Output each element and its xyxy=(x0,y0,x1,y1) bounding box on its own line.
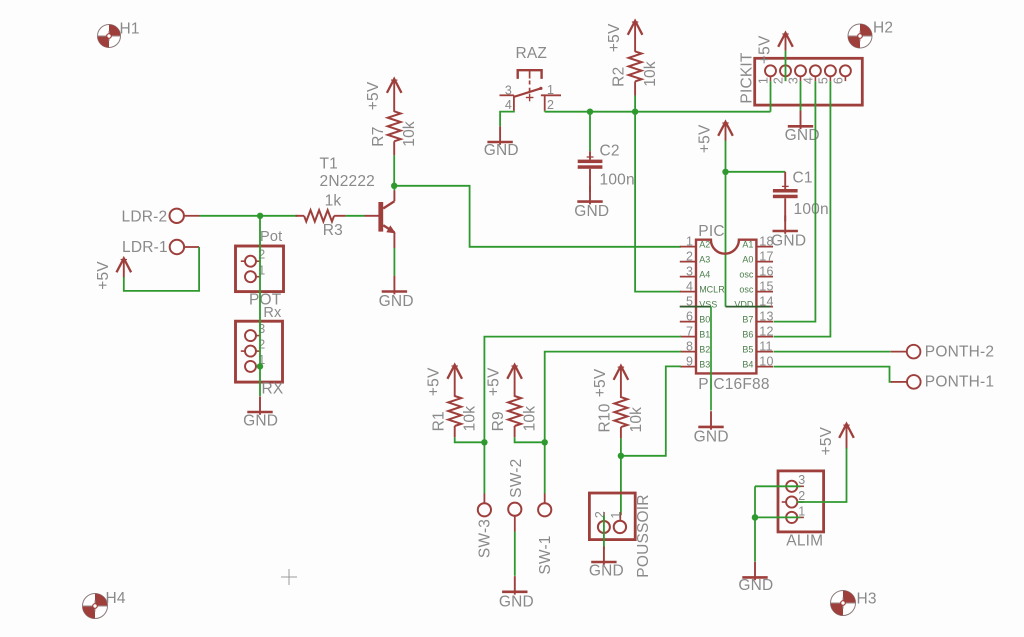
svg-text:1k: 1k xyxy=(325,192,342,209)
svg-text:GND: GND xyxy=(589,563,624,580)
wire R2 to MCLR net xyxy=(634,96,636,112)
pin number 17 xyxy=(759,249,773,263)
label +5V (R2) xyxy=(606,23,623,52)
pin number 18 xyxy=(759,234,773,248)
svg-text:10k: 10k xyxy=(628,407,645,433)
svg-text:R2: R2 xyxy=(611,67,628,87)
wire PIC B4 to PONTH-1 xyxy=(774,367,893,382)
resistor R10 xyxy=(614,397,627,438)
svg-text:PIC16F88: PIC16F88 xyxy=(698,376,769,393)
label POUSSOIR pin 2 xyxy=(593,511,607,518)
svg-text:2: 2 xyxy=(772,77,786,84)
node junction SW-3 xyxy=(481,439,487,445)
svg-text:R9: R9 xyxy=(490,411,507,431)
PIC pin 1 stub xyxy=(680,246,696,248)
wire R9 to SW-1 node xyxy=(515,437,545,442)
svg-text:GND: GND xyxy=(499,594,534,611)
svg-text:A4: A4 xyxy=(699,270,710,280)
PIC pin 17 stub xyxy=(756,261,773,263)
label POT pin 1 xyxy=(258,263,265,277)
svg-text:B7: B7 xyxy=(742,315,753,325)
svg-text:A0: A0 xyxy=(742,255,753,265)
PIC pin 13 stub xyxy=(756,321,773,323)
ground GND (PICKIT) xyxy=(788,81,813,129)
label R7 value 10k xyxy=(401,121,418,147)
pin name B5 xyxy=(742,345,753,355)
svg-text:R1: R1 xyxy=(430,411,447,431)
svg-text:B0: B0 xyxy=(699,315,710,325)
wire LDR-2 node to RX xyxy=(259,216,261,396)
label PICKIT xyxy=(738,52,755,103)
pin number 6 xyxy=(686,309,693,323)
wire PICKIT pin4 to PIC B7 xyxy=(774,81,816,322)
pad SW-3 xyxy=(478,494,491,517)
mounting hole H2 xyxy=(848,24,872,48)
label GND (C2) xyxy=(574,203,609,220)
svg-text:3: 3 xyxy=(787,77,801,84)
pad PONTH-2 xyxy=(891,345,921,359)
svg-text:6: 6 xyxy=(831,77,845,84)
svg-text:5: 5 xyxy=(816,77,830,84)
svg-text:R7: R7 xyxy=(370,126,387,146)
svg-text:PICKIT: PICKIT xyxy=(738,52,755,103)
label +5V (VDD) xyxy=(697,124,714,153)
svg-text:1: 1 xyxy=(686,234,693,248)
ground GND (C1) xyxy=(773,215,798,234)
resistor R1 xyxy=(448,396,461,437)
svg-text:H3: H3 xyxy=(857,591,877,608)
svg-text:LDR-2: LDR-2 xyxy=(122,209,168,226)
label H4 xyxy=(106,590,126,607)
label RAZ pin 3 xyxy=(505,84,512,98)
wire C2 top xyxy=(589,112,591,152)
svg-text:R3: R3 xyxy=(323,222,343,239)
pin name B6 xyxy=(742,330,753,340)
pin name A4 xyxy=(699,270,710,280)
pin number 2 xyxy=(686,249,693,263)
label ALIM xyxy=(786,532,823,549)
node junction C1 xyxy=(722,169,728,175)
svg-text:+5V: +5V xyxy=(818,426,835,455)
pin name A2 xyxy=(699,240,710,250)
label T1 value 2N2222 xyxy=(320,173,376,190)
svg-text:B4: B4 xyxy=(742,360,753,370)
label +5V (ALIM) xyxy=(818,426,835,455)
pin name B1 xyxy=(699,330,710,340)
svg-text:GND: GND xyxy=(785,127,820,144)
svg-text:PIC: PIC xyxy=(698,223,724,240)
PIC pin 18 stub xyxy=(756,246,773,248)
pin name B4 xyxy=(742,360,753,370)
label GND (C1) xyxy=(771,233,806,250)
label R10 xyxy=(597,403,614,432)
pin number 3 xyxy=(686,264,693,278)
svg-text:Rx: Rx xyxy=(263,305,282,321)
label +5V (R7) xyxy=(365,81,382,110)
label GND (PIC) xyxy=(694,428,729,445)
pad SW-2 xyxy=(508,503,521,532)
svg-text:C2: C2 xyxy=(600,142,620,159)
wire LDR-2 to R3 xyxy=(200,215,298,217)
svg-text:A3: A3 xyxy=(699,255,710,265)
label H3 xyxy=(857,591,877,608)
mounting hole H1 xyxy=(98,25,121,48)
label R3 xyxy=(323,222,343,239)
label R2 value 10k xyxy=(642,61,659,87)
PIC pin 15 stub xyxy=(756,291,773,293)
mounting hole H4 xyxy=(83,594,108,619)
pad SW-1 xyxy=(538,494,551,517)
wire T1 emitter to GND xyxy=(393,248,395,276)
label R9 value 10k xyxy=(522,406,539,432)
connector PICKIT xyxy=(755,58,863,105)
PIC pin 6 stub xyxy=(680,321,696,323)
node junction RX pin1 xyxy=(257,363,263,369)
svg-text:3: 3 xyxy=(505,84,512,98)
pin name VDD xyxy=(734,300,754,310)
svg-text:MCLR: MCLR xyxy=(699,285,725,295)
PIC pin 8 stub xyxy=(680,351,696,353)
svg-text:11: 11 xyxy=(759,339,772,353)
label Pot xyxy=(260,229,282,245)
pin name osc xyxy=(739,270,754,280)
capacitor C2 xyxy=(578,151,603,192)
svg-text:17: 17 xyxy=(759,249,773,263)
PICKIT pad 1 xyxy=(765,65,776,81)
node junction R10 xyxy=(618,453,624,459)
label GND (ALIM) xyxy=(738,577,773,594)
node junction C2 xyxy=(587,109,593,115)
power +5V (R1) xyxy=(447,365,462,397)
wire PICKIT pin1 down xyxy=(770,81,772,112)
pad PONTH-1 xyxy=(891,375,921,389)
transistor T1 xyxy=(365,191,396,249)
label RX pin 2 xyxy=(258,338,265,352)
svg-text:Pot: Pot xyxy=(260,229,282,245)
ground GND (RX) xyxy=(247,396,272,415)
label PICKIT pin 1 xyxy=(757,77,771,84)
ground GND (C2) xyxy=(577,186,602,205)
wire VSS to GND xyxy=(680,307,711,411)
PIC pin 7 stub xyxy=(680,336,696,338)
svg-text:+5V: +5V xyxy=(426,367,443,396)
wire PICKIT pin5 to PIC B6 xyxy=(774,81,831,337)
label SW-3 xyxy=(477,519,494,558)
PIC pin 14 stub xyxy=(756,306,773,308)
label C2 value 100n xyxy=(600,171,635,188)
pad LDR-2 xyxy=(170,209,200,223)
power +5V (ALIM) xyxy=(839,424,854,449)
power +5V (PICKIT) xyxy=(778,33,793,51)
label R10 value 10k xyxy=(628,407,645,433)
PIC pin 10 stub xyxy=(756,366,773,368)
svg-text:B5: B5 xyxy=(742,345,753,355)
label T1 xyxy=(320,155,339,172)
svg-text:+5V: +5V xyxy=(95,261,112,290)
label GND (SW-2) xyxy=(499,594,534,611)
label +5V (PICKIT) xyxy=(757,35,774,64)
label R1 value 10k xyxy=(462,406,479,432)
label Rx xyxy=(263,305,282,321)
label PONTH-2 xyxy=(925,344,994,361)
label POT xyxy=(249,292,282,309)
svg-text:9: 9 xyxy=(686,354,693,368)
svg-text:3: 3 xyxy=(798,473,805,487)
pin name A1 xyxy=(742,240,753,250)
label ALIM pin 2 xyxy=(798,489,805,503)
resistor R3 xyxy=(296,210,346,221)
label POT pin 2 xyxy=(258,248,265,262)
PICKIT pad 2 xyxy=(780,65,791,81)
svg-text:100n: 100n xyxy=(794,201,829,218)
wire POUSSOIR pin2 to GND xyxy=(603,516,605,550)
PICKIT pad 5 xyxy=(825,65,836,81)
label C1 xyxy=(793,169,813,186)
power +5V (LDR-1) xyxy=(117,258,132,277)
ground GND (PIC) xyxy=(698,411,723,430)
pin name B3 xyxy=(699,360,710,370)
label PICKIT pin 6 xyxy=(831,77,845,84)
svg-text:+5V: +5V xyxy=(365,81,382,110)
wire ALIM pin2 to +5V xyxy=(797,448,847,502)
ground GND (T1) xyxy=(382,276,407,295)
svg-text:10k: 10k xyxy=(642,61,659,87)
svg-text:H4: H4 xyxy=(106,590,126,607)
PIC pin 5 stub xyxy=(680,306,696,308)
node junction collector xyxy=(391,183,397,189)
node junction LDR-2/POT xyxy=(257,213,263,219)
wire RAZ pin2 down xyxy=(544,110,546,113)
svg-text:T1: T1 xyxy=(320,155,339,172)
svg-text:B2: B2 xyxy=(699,345,710,355)
label PICKIT pin 3 xyxy=(787,77,801,84)
wire MCLR net xyxy=(545,111,771,113)
svg-text:12: 12 xyxy=(759,324,773,338)
svg-text:SW-1: SW-1 xyxy=(537,535,554,574)
label SW-1 xyxy=(537,535,554,574)
wire PIC B2 to SW-1 xyxy=(545,352,681,494)
pin name MCLR xyxy=(699,285,725,295)
pad LDR-1 xyxy=(170,240,199,254)
switch RAZ xyxy=(500,70,562,111)
label ALIM pin 3 xyxy=(798,473,805,487)
PIC pin 16 stub xyxy=(756,276,773,278)
svg-text:SW-3: SW-3 xyxy=(477,519,494,558)
svg-text:GND: GND xyxy=(771,233,806,250)
wire ALIM pin1 to node xyxy=(755,516,800,518)
svg-text:4: 4 xyxy=(505,98,512,112)
PICKIT pad 3 xyxy=(795,65,806,81)
svg-text:+5V: +5V xyxy=(757,35,774,64)
wire PIC B1 to SW-3 xyxy=(484,337,681,494)
wire R10 node to POUSSOIR xyxy=(620,456,622,515)
label C1 value 100n xyxy=(794,201,829,218)
wire +5V down to VDD xyxy=(725,141,727,307)
svg-text:16: 16 xyxy=(759,264,773,278)
label H2 xyxy=(873,20,893,37)
capacitor C1 xyxy=(773,172,798,222)
svg-text:+5V: +5V xyxy=(606,23,623,52)
wire SW-2 to GND xyxy=(514,532,516,576)
node junction SW-1 xyxy=(542,439,548,445)
svg-text:PONTH-2: PONTH-2 xyxy=(925,344,994,361)
power +5V (R2) xyxy=(628,21,643,52)
svg-text:H2: H2 xyxy=(873,20,893,37)
pin number 1 xyxy=(686,234,693,248)
power +5V (R9) xyxy=(507,365,522,397)
wire ALIM pin3 to node xyxy=(755,486,800,561)
svg-text:A2: A2 xyxy=(699,240,710,250)
label +5V (R9) xyxy=(486,367,503,396)
svg-text:B1: B1 xyxy=(699,330,710,340)
ground GND (SW-2) xyxy=(502,576,527,595)
label LDR-2 xyxy=(122,209,168,226)
power +5V (R7) xyxy=(387,79,402,112)
svg-text:15: 15 xyxy=(759,279,773,293)
svg-text:VSS: VSS xyxy=(699,300,717,310)
label PIC xyxy=(698,223,724,240)
label PONTH-1 xyxy=(925,374,994,391)
label PIC16F88 xyxy=(698,376,769,393)
svg-text:7: 7 xyxy=(686,324,693,338)
label GND (RAZ) xyxy=(484,142,519,159)
wire to C1 xyxy=(726,171,786,173)
svg-text:GND: GND xyxy=(484,142,519,159)
svg-text:RAZ: RAZ xyxy=(516,45,548,62)
mounting hole H3 xyxy=(831,591,856,616)
svg-text:osc: osc xyxy=(739,270,754,280)
svg-text:H1: H1 xyxy=(120,21,140,38)
wire LDR-1 to +5V xyxy=(124,247,199,291)
label +5V (R10) xyxy=(592,368,609,397)
svg-text:A1: A1 xyxy=(742,240,753,250)
label R9 xyxy=(490,411,507,431)
wire R7 to T1 collector xyxy=(393,155,395,185)
label C2 xyxy=(600,142,620,159)
svg-text:GND: GND xyxy=(379,293,414,310)
pin number 8 xyxy=(686,339,693,353)
svg-text:4: 4 xyxy=(801,77,815,84)
pin number 15 xyxy=(759,279,773,293)
label RAZ pin 2 xyxy=(547,98,554,112)
PIC pin 4 stub xyxy=(680,291,696,293)
svg-text:2: 2 xyxy=(593,511,607,518)
pin number 10 xyxy=(759,354,773,368)
pin name B0 xyxy=(699,315,710,325)
op-amp U1 PIC16F88 outline xyxy=(696,240,756,374)
svg-text:+5V: +5V xyxy=(486,367,503,396)
pin number 13 xyxy=(759,309,773,323)
label RX pin 3 xyxy=(258,322,265,336)
pin number 7 xyxy=(686,324,693,338)
svg-text:2N2222: 2N2222 xyxy=(320,173,376,190)
label +5V (LDR-1) xyxy=(95,261,112,290)
pin number 11 xyxy=(759,339,772,353)
wire R10 to node xyxy=(620,438,622,455)
connector RX xyxy=(236,321,283,382)
label LDR-1 xyxy=(122,239,168,256)
svg-text:B3: B3 xyxy=(699,360,710,370)
svg-text:100n: 100n xyxy=(600,171,635,188)
PIC pin 2 stub xyxy=(680,261,696,263)
resistor R7 xyxy=(388,111,401,155)
label RX xyxy=(262,380,284,397)
svg-text:RX: RX xyxy=(262,380,284,397)
label SW-2 xyxy=(508,459,525,498)
pin name B2 xyxy=(699,345,710,355)
pin number 4 xyxy=(686,279,693,293)
pin number 5 xyxy=(686,294,693,308)
wire RAZ pin4 to GND xyxy=(500,111,514,127)
label PICKIT pin 4 xyxy=(801,77,815,84)
svg-text:1: 1 xyxy=(547,83,554,97)
label PICKIT pin 5 xyxy=(816,77,830,84)
svg-text:3: 3 xyxy=(686,264,693,278)
pin number 9 xyxy=(686,354,693,368)
PIC pin 3 stub xyxy=(680,276,696,278)
resistor R2 xyxy=(629,51,642,95)
svg-text:1: 1 xyxy=(609,511,623,518)
svg-text:2: 2 xyxy=(547,98,554,112)
svg-text:GND: GND xyxy=(243,413,278,430)
wire R3 to T1 base xyxy=(346,215,365,217)
label R2 xyxy=(611,67,628,87)
label RAZ xyxy=(516,45,548,62)
pin number 14 xyxy=(759,294,773,308)
node junction ALIM xyxy=(752,514,759,521)
svg-text:4: 4 xyxy=(686,279,693,293)
pin name B7 xyxy=(742,315,753,325)
svg-text:8: 8 xyxy=(686,339,693,353)
svg-text:10k: 10k xyxy=(401,121,418,147)
pin number 12 xyxy=(759,324,773,338)
svg-text:13: 13 xyxy=(759,309,773,323)
label GND (PICKIT) xyxy=(785,127,820,144)
svg-text:10k: 10k xyxy=(522,406,539,432)
svg-text:POUSSOIR: POUSSOIR xyxy=(635,494,652,577)
pin number 16 xyxy=(759,264,773,278)
PICKIT pad 4 xyxy=(810,65,821,81)
svg-text:+5V: +5V xyxy=(592,368,609,397)
svg-text:VDD: VDD xyxy=(734,300,754,310)
label ALIM pin 1 xyxy=(798,505,805,519)
label GND (T1) xyxy=(379,293,414,310)
svg-text:18: 18 xyxy=(759,234,773,248)
power +5V (VDD) xyxy=(718,122,733,141)
power +5V (R10) xyxy=(614,366,629,398)
pin name VSS xyxy=(699,300,717,310)
svg-text:2: 2 xyxy=(798,489,805,503)
wire PIC B5 to PONTH-2 xyxy=(774,351,891,353)
svg-text:R10: R10 xyxy=(597,403,614,432)
svg-text:10: 10 xyxy=(759,354,773,368)
label GND (RX) xyxy=(243,413,278,430)
pin name A3 xyxy=(699,255,710,265)
svg-text:PONTH-1: PONTH-1 xyxy=(925,374,994,391)
label R7 xyxy=(370,126,387,146)
svg-text:ALIM: ALIM xyxy=(786,532,823,549)
pin name osc xyxy=(739,285,754,295)
label H1 xyxy=(120,21,140,38)
svg-text:2: 2 xyxy=(686,249,693,263)
label R3 value 1k xyxy=(325,192,342,209)
svg-text:SW-2: SW-2 xyxy=(508,459,525,498)
PIC pin 11 stub xyxy=(756,351,773,353)
pin name A0 xyxy=(742,255,753,265)
connector POUSSOIR xyxy=(589,493,635,540)
connector POT xyxy=(236,246,284,292)
PIC pin 12 stub xyxy=(756,336,773,338)
